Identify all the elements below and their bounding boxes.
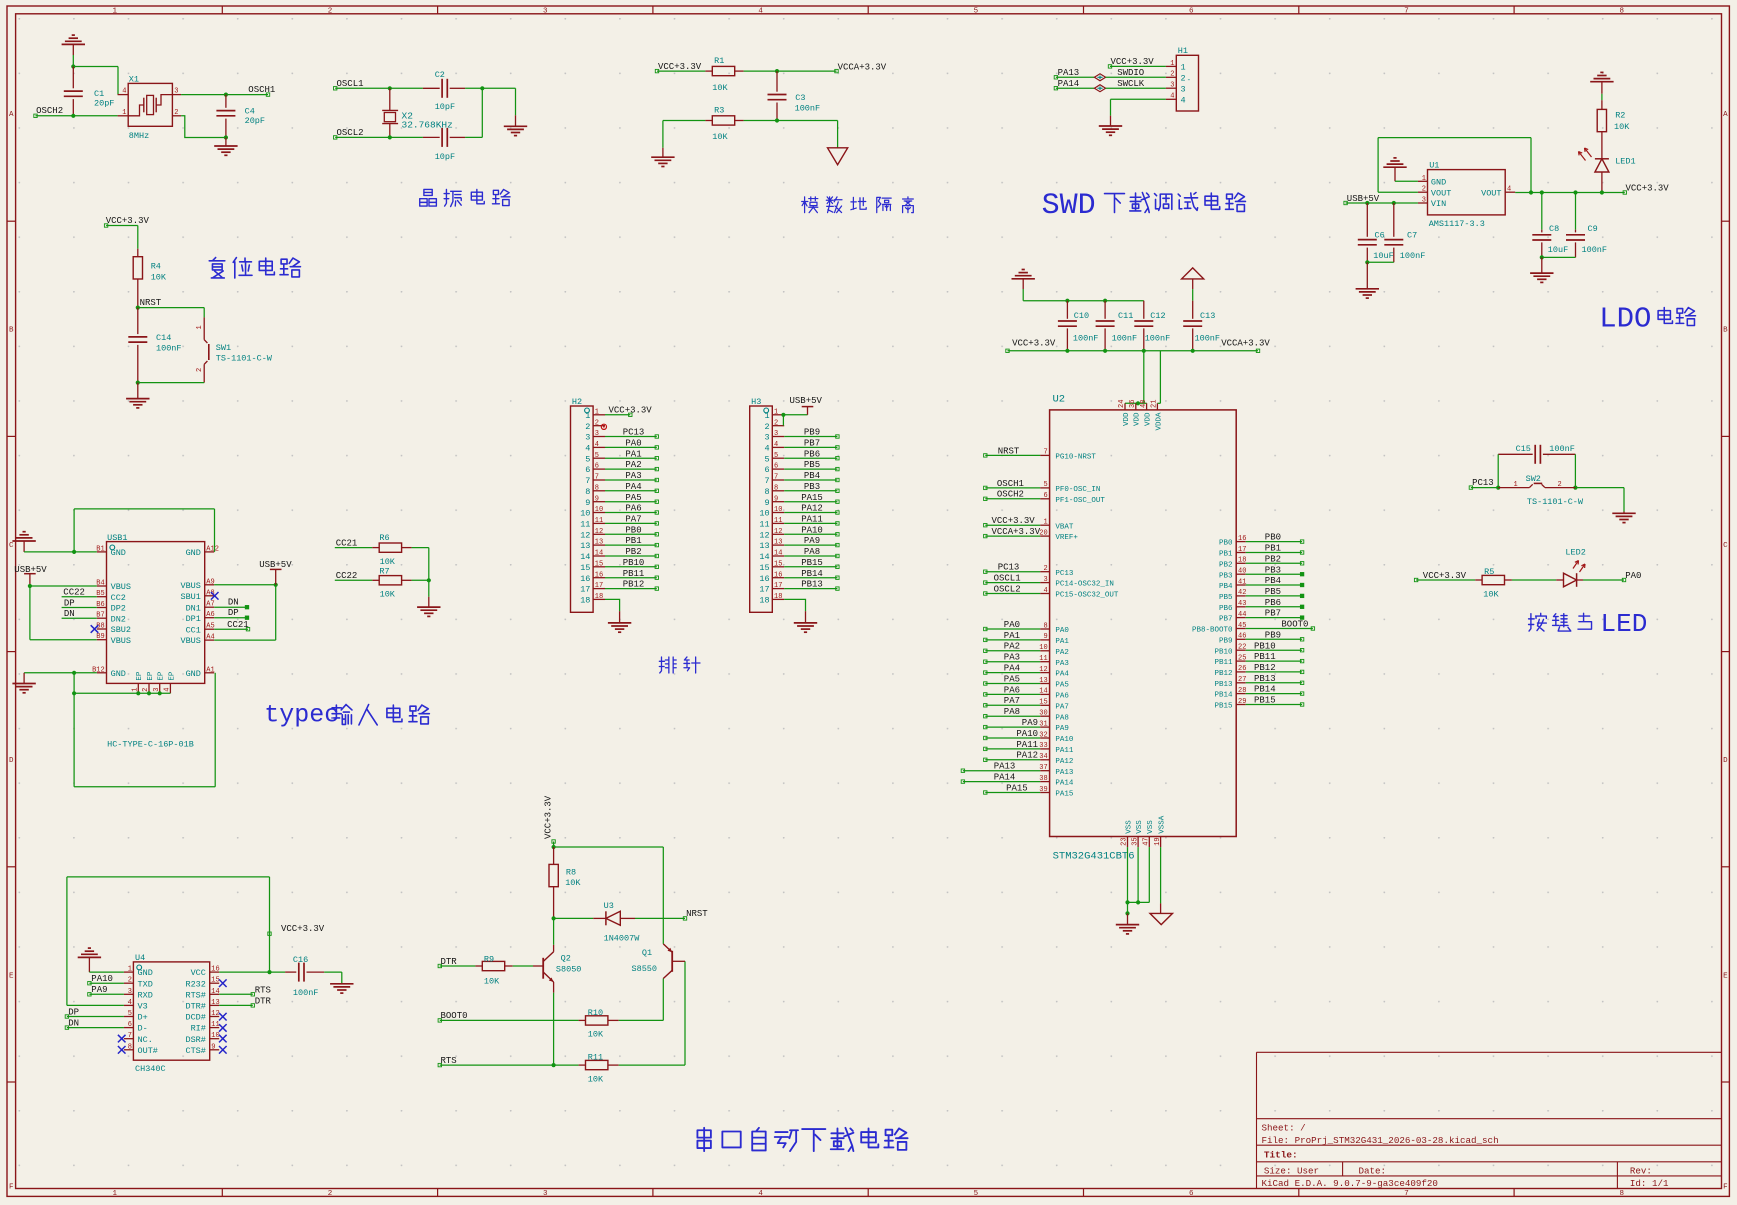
svg-text:7: 7	[764, 476, 769, 486]
svg-text:USB+5V: USB+5V	[790, 396, 823, 406]
svg-text:PB15: PB15	[801, 558, 823, 568]
svg-text:R11: R11	[588, 1053, 603, 1063]
svg-text:VCC+3.3V: VCC+3.3V	[281, 924, 325, 934]
svg-text:3: 3	[1170, 82, 1174, 90]
svg-text:PB10: PB10	[1254, 641, 1276, 651]
svg-text:F: F	[1723, 1184, 1728, 1192]
svg-text:C9: C9	[1588, 224, 1598, 234]
svg-text:PF1-OSC_OUT: PF1-OSC_OUT	[1055, 497, 1105, 505]
svg-text:R10: R10	[588, 1008, 603, 1018]
svg-text:10: 10	[580, 509, 590, 519]
svg-text:VSS: VSS	[1125, 820, 1133, 834]
svg-text:C14: C14	[156, 333, 171, 343]
svg-text:VCC+3.3V: VCC+3.3V	[658, 62, 702, 72]
svg-text:A1: A1	[206, 666, 214, 674]
svg-text:10: 10	[595, 506, 603, 514]
svg-text:RTS: RTS	[441, 1056, 457, 1066]
svg-text:PB10: PB10	[623, 558, 645, 568]
svg-text:16: 16	[580, 574, 590, 584]
svg-text:10K: 10K	[712, 83, 728, 93]
svg-text:VCCA+3.3V: VCCA+3.3V	[1221, 338, 1270, 348]
svg-text:14: 14	[759, 552, 769, 562]
svg-text:DN: DN	[64, 609, 75, 619]
svg-text:1: 1	[1514, 481, 1518, 489]
svg-text:14: 14	[595, 550, 603, 558]
svg-text:100nF: 100nF	[1145, 333, 1171, 343]
svg-text:C: C	[1723, 542, 1728, 550]
svg-text:R232: R232	[185, 979, 205, 989]
svg-text:2: 2	[196, 368, 204, 372]
svg-text:PA10: PA10	[801, 525, 823, 535]
svg-text:12: 12	[580, 530, 590, 540]
svg-text:SWCLK: SWCLK	[1117, 79, 1145, 89]
svg-text:31: 31	[1039, 720, 1047, 728]
svg-text:15: 15	[759, 563, 769, 573]
svg-text:10K: 10K	[380, 557, 396, 567]
svg-text:3: 3	[174, 88, 178, 96]
svg-text:DP: DP	[64, 598, 75, 608]
svg-text:20: 20	[1039, 529, 1047, 537]
svg-text:R1: R1	[714, 56, 724, 66]
svg-text:S8550: S8550	[632, 964, 658, 974]
svg-text:2: 2	[1043, 565, 1047, 573]
svg-text:PB3: PB3	[804, 482, 820, 492]
svg-text:43: 43	[1238, 600, 1246, 608]
svg-text:PB6: PB6	[804, 449, 820, 459]
svg-text:PA7: PA7	[625, 515, 641, 525]
svg-text:100nF: 100nF	[1582, 245, 1608, 255]
svg-text:10: 10	[211, 1032, 219, 1040]
svg-text:2: 2	[585, 422, 590, 432]
svg-text:10K: 10K	[1483, 590, 1499, 600]
svg-text:6: 6	[1189, 1190, 1194, 1198]
svg-text:28: 28	[1238, 687, 1246, 695]
svg-text:CTS#: CTS#	[185, 1046, 205, 1056]
svg-text:PA7: PA7	[1055, 703, 1069, 711]
svg-text:35: 35	[1131, 837, 1139, 845]
svg-text:13: 13	[211, 999, 219, 1007]
svg-text:C2: C2	[435, 70, 445, 80]
svg-text:23: 23	[1121, 837, 1129, 845]
svg-text:E: E	[1723, 972, 1728, 980]
svg-text:PB13: PB13	[801, 580, 823, 590]
svg-text:RTS#: RTS#	[185, 990, 205, 1000]
svg-text:C10: C10	[1074, 311, 1089, 321]
svg-text:DP: DP	[228, 608, 239, 618]
svg-text:4: 4	[122, 88, 126, 96]
svg-text:PB4: PB4	[804, 471, 820, 481]
svg-text:D+: D+	[138, 1013, 148, 1023]
svg-text:C6: C6	[1375, 230, 1385, 240]
svg-text:3: 3	[1181, 84, 1186, 94]
svg-text:8: 8	[128, 1043, 132, 1051]
svg-text:11: 11	[595, 517, 603, 525]
svg-text:1N4007W: 1N4007W	[604, 934, 641, 944]
svg-text:10pF: 10pF	[435, 152, 455, 162]
svg-text:PB2: PB2	[1219, 561, 1233, 569]
svg-text:100nF: 100nF	[1400, 251, 1426, 261]
svg-text:8: 8	[1620, 7, 1625, 15]
svg-text:3: 3	[774, 430, 778, 438]
svg-text:PA8: PA8	[1055, 714, 1069, 722]
svg-text:HC-TYPE-C-16P-01B: HC-TYPE-C-16P-01B	[107, 739, 194, 749]
svg-text:10uF: 10uF	[1373, 251, 1393, 261]
svg-text:LDO: LDO	[1599, 303, 1651, 336]
svg-text:X1: X1	[129, 74, 139, 84]
svg-text:22: 22	[1238, 644, 1246, 652]
svg-text:5: 5	[585, 454, 590, 464]
svg-text:PB11: PB11	[1254, 652, 1276, 662]
svg-text:VCC+3.3V: VCC+3.3V	[1012, 338, 1056, 348]
svg-text:4: 4	[774, 441, 778, 449]
svg-text:LED: LED	[1601, 609, 1648, 639]
svg-text:typec: typec	[264, 701, 339, 730]
svg-text:VCCA+3.3V: VCCA+3.3V	[838, 63, 887, 73]
svg-text:18: 18	[1238, 557, 1246, 565]
svg-text:OSCH1: OSCH1	[248, 85, 275, 95]
svg-text:RXD: RXD	[138, 990, 153, 1000]
svg-text:SWD: SWD	[1042, 189, 1096, 223]
svg-text:VBUS: VBUS	[111, 582, 131, 592]
svg-text:7: 7	[1404, 7, 1409, 15]
svg-text:4: 4	[764, 444, 769, 454]
svg-text:39: 39	[1039, 786, 1047, 794]
svg-text:2: 2	[595, 419, 599, 427]
svg-text:GND: GND	[186, 669, 201, 679]
svg-text:NRST: NRST	[140, 298, 162, 308]
svg-text:EP: EP	[158, 671, 166, 681]
svg-text:B6: B6	[96, 601, 104, 609]
svg-text:5: 5	[974, 1190, 979, 1198]
svg-text:1: 1	[112, 1190, 117, 1198]
svg-text:CC21: CC21	[227, 620, 249, 630]
svg-text:CH340C: CH340C	[135, 1064, 166, 1074]
svg-text:EP: EP	[168, 671, 176, 681]
svg-text:VDDA: VDDA	[1155, 412, 1163, 431]
svg-text:PA7: PA7	[1004, 696, 1020, 706]
svg-text:8: 8	[595, 484, 599, 492]
svg-text:PB1: PB1	[1265, 544, 1281, 554]
svg-text:VCC+3.3V: VCC+3.3V	[1626, 183, 1670, 193]
svg-text:OSCH2: OSCH2	[36, 106, 63, 116]
svg-text:PB5: PB5	[804, 460, 820, 470]
svg-text:GND: GND	[186, 548, 201, 558]
svg-text:18: 18	[595, 593, 603, 601]
svg-text:3: 3	[764, 433, 769, 443]
svg-text:TS-1101-C-W: TS-1101-C-W	[216, 354, 273, 364]
svg-text:16: 16	[595, 571, 603, 579]
svg-text:PA1: PA1	[1055, 638, 1069, 646]
svg-text:PA0: PA0	[1625, 571, 1641, 581]
svg-text:3: 3	[543, 7, 548, 15]
svg-text:10uF: 10uF	[1548, 245, 1568, 255]
svg-text:OUT#: OUT#	[138, 1046, 158, 1056]
svg-text:TS-1101-C-W: TS-1101-C-W	[1527, 497, 1584, 507]
svg-text:PB13: PB13	[1214, 681, 1233, 689]
svg-text:Q1: Q1	[642, 948, 652, 958]
svg-text:PB4: PB4	[1219, 583, 1233, 591]
svg-text:37: 37	[1039, 764, 1047, 772]
svg-text:1: 1	[112, 7, 117, 15]
svg-text:9: 9	[211, 1043, 215, 1051]
svg-text:PB0: PB0	[625, 525, 641, 535]
svg-text:OSCL2: OSCL2	[337, 128, 364, 138]
svg-text:Size: User: Size: User	[1264, 1165, 1319, 1176]
svg-text:VREF+: VREF+	[1055, 534, 1078, 542]
svg-text:C8: C8	[1549, 224, 1559, 234]
svg-text:PA4: PA4	[625, 482, 641, 492]
svg-text:USB1: USB1	[107, 533, 127, 543]
svg-text:VCC+3.3V: VCC+3.3V	[609, 405, 653, 415]
svg-text:PA11: PA11	[1016, 740, 1038, 750]
svg-text:4: 4	[1170, 93, 1174, 101]
svg-text:A6: A6	[206, 611, 214, 619]
svg-text:PB14: PB14	[801, 569, 823, 579]
svg-text:10K: 10K	[1614, 122, 1630, 132]
svg-text:C7: C7	[1407, 230, 1417, 240]
svg-text:GND: GND	[111, 669, 126, 679]
svg-text:3: 3	[595, 430, 599, 438]
svg-text:PA6: PA6	[1055, 693, 1069, 701]
svg-text:DTR#: DTR#	[185, 1002, 205, 1012]
svg-text:U4: U4	[135, 953, 145, 963]
svg-text:PA9: PA9	[1022, 718, 1038, 728]
svg-text:10pF: 10pF	[435, 102, 455, 112]
svg-text:PC13: PC13	[1055, 570, 1074, 578]
svg-text:100nF: 100nF	[795, 104, 821, 114]
svg-text:2: 2	[328, 1190, 333, 1198]
svg-text:PB1: PB1	[625, 536, 641, 546]
svg-text:12: 12	[774, 528, 782, 536]
svg-text:8: 8	[1043, 622, 1047, 630]
svg-text:PB14: PB14	[1214, 692, 1233, 700]
svg-text:PB12: PB12	[1254, 663, 1276, 673]
svg-text:5: 5	[595, 452, 599, 460]
svg-text:PA8: PA8	[1004, 707, 1020, 717]
svg-text:SW2: SW2	[1526, 474, 1541, 484]
svg-text:12: 12	[759, 530, 769, 540]
svg-text:26: 26	[1238, 665, 1246, 673]
svg-text:OSCH2: OSCH2	[997, 490, 1024, 500]
svg-text:10: 10	[774, 506, 782, 514]
svg-text:USB+5V: USB+5V	[1347, 194, 1380, 204]
svg-text:PB10: PB10	[1214, 648, 1233, 656]
svg-text:NRST: NRST	[998, 446, 1020, 456]
svg-text:E: E	[9, 972, 14, 980]
svg-text:LED2: LED2	[1565, 547, 1585, 557]
svg-text:3: 3	[153, 688, 161, 692]
svg-text:PB2: PB2	[1265, 554, 1281, 564]
svg-text:15: 15	[595, 560, 603, 568]
svg-text:PA0: PA0	[1004, 620, 1020, 630]
svg-text:5: 5	[764, 454, 769, 464]
svg-text:PA15: PA15	[1055, 791, 1074, 799]
svg-text:A: A	[9, 111, 14, 119]
svg-text:4: 4	[1181, 95, 1186, 105]
svg-text:6: 6	[764, 465, 769, 475]
svg-text:S8050: S8050	[556, 965, 582, 975]
svg-text:H1: H1	[1178, 46, 1188, 56]
svg-text:11: 11	[774, 517, 782, 525]
svg-text:2: 2	[774, 419, 778, 427]
svg-text:PC15-OSC32_OUT: PC15-OSC32_OUT	[1055, 592, 1119, 600]
svg-text:B9: B9	[96, 633, 104, 641]
svg-text:C4: C4	[245, 107, 255, 117]
svg-text:VSS: VSS	[1147, 820, 1155, 834]
svg-text:100nF: 100nF	[1073, 333, 1099, 343]
svg-text:VCC+3.3V: VCC+3.3V	[1111, 57, 1155, 67]
svg-text:PB4: PB4	[1265, 576, 1281, 586]
svg-text:R8: R8	[566, 868, 576, 878]
svg-text:18: 18	[759, 596, 769, 606]
svg-text:DCD#: DCD#	[185, 1013, 205, 1023]
svg-text:PB7: PB7	[804, 439, 820, 449]
svg-text:5: 5	[974, 7, 979, 15]
svg-text:1: 1	[585, 411, 590, 421]
svg-text:13: 13	[1039, 677, 1047, 685]
svg-text:36: 36	[1129, 400, 1137, 408]
svg-text:10K: 10K	[588, 1074, 604, 1084]
svg-text:PB0: PB0	[1265, 533, 1281, 543]
svg-text:VSSA: VSSA	[1159, 815, 1167, 834]
svg-text:17: 17	[759, 585, 769, 595]
svg-text:B4: B4	[96, 580, 104, 588]
svg-text:DP1: DP1	[186, 614, 201, 624]
svg-text:DTR: DTR	[255, 997, 272, 1007]
svg-text:PA0: PA0	[625, 439, 641, 449]
svg-text:H3: H3	[751, 397, 761, 407]
svg-text:PA0: PA0	[1055, 627, 1069, 635]
svg-text:R4: R4	[151, 262, 161, 272]
svg-text:PB2: PB2	[625, 547, 641, 557]
svg-text:1: 1	[122, 109, 126, 117]
svg-text:100nF: 100nF	[1549, 444, 1575, 454]
svg-text:7: 7	[1043, 449, 1047, 457]
svg-text:OSCL2: OSCL2	[994, 584, 1021, 594]
svg-text:SBU1: SBU1	[180, 592, 200, 602]
svg-text:17: 17	[580, 585, 590, 595]
svg-text:1: 1	[764, 411, 769, 421]
svg-text:1: 1	[128, 966, 132, 974]
svg-text:18: 18	[580, 596, 590, 606]
svg-text:17: 17	[774, 582, 782, 590]
svg-text:6: 6	[1043, 492, 1047, 500]
svg-text:15: 15	[774, 560, 782, 568]
svg-text:12: 12	[211, 1010, 219, 1018]
svg-text:SWDIO: SWDIO	[1117, 68, 1144, 78]
svg-text:2: 2	[142, 688, 150, 692]
svg-text:VSS: VSS	[1136, 820, 1144, 834]
svg-text:2: 2	[1558, 481, 1562, 489]
svg-text:2: 2	[1181, 73, 1186, 83]
svg-text:NRST: NRST	[686, 909, 708, 919]
svg-text:11: 11	[211, 1021, 219, 1029]
svg-text:12: 12	[1039, 666, 1047, 674]
svg-text:VDD: VDD	[1145, 412, 1153, 426]
svg-text:PC13: PC13	[623, 428, 645, 438]
svg-text:16: 16	[759, 574, 769, 584]
svg-text:CC2: CC2	[111, 593, 126, 603]
svg-text:PA3: PA3	[1004, 653, 1020, 663]
svg-text:44: 44	[1238, 611, 1246, 619]
svg-text:PA6: PA6	[625, 504, 641, 514]
svg-text:46: 46	[1238, 633, 1246, 641]
svg-text:VOUT: VOUT	[1431, 188, 1451, 198]
svg-text:PB13: PB13	[1254, 674, 1276, 684]
svg-text:D: D	[1723, 757, 1728, 765]
svg-text:17: 17	[1238, 546, 1246, 554]
svg-text:DSR#: DSR#	[185, 1035, 205, 1045]
svg-text:SBU2: SBU2	[111, 625, 131, 635]
svg-text:10: 10	[759, 509, 769, 519]
svg-text:TXD: TXD	[138, 979, 153, 989]
svg-text:11: 11	[759, 520, 769, 530]
svg-text:C: C	[9, 542, 14, 550]
svg-text:PB6: PB6	[1219, 605, 1233, 613]
svg-text:NC.: NC.	[138, 1035, 153, 1045]
svg-text:16: 16	[774, 571, 782, 579]
svg-text:PG10-NRST: PG10-NRST	[1055, 454, 1096, 462]
svg-text:PB8-BOOT0: PB8-BOOT0	[1192, 627, 1233, 635]
svg-text:100nF: 100nF	[293, 988, 319, 998]
svg-text:V3: V3	[138, 1002, 148, 1012]
svg-text:30: 30	[1039, 710, 1047, 718]
svg-text:100nF: 100nF	[1112, 333, 1138, 343]
svg-text:U1: U1	[1429, 160, 1439, 170]
svg-text:BOOT0: BOOT0	[441, 1011, 468, 1021]
svg-text:2: 2	[174, 109, 178, 117]
svg-text:C12: C12	[1150, 311, 1165, 321]
svg-text:1: 1	[1170, 60, 1174, 68]
svg-text:2: 2	[764, 422, 769, 432]
svg-text:29: 29	[1238, 698, 1246, 706]
svg-text:VCC+3.3V: VCC+3.3V	[992, 516, 1036, 526]
svg-text:D: D	[9, 757, 14, 765]
svg-text:PB3: PB3	[1265, 565, 1281, 575]
svg-text:47: 47	[1143, 837, 1151, 845]
svg-text:PA5: PA5	[625, 493, 641, 503]
svg-text:Date:: Date:	[1359, 1165, 1387, 1176]
svg-text:6: 6	[585, 465, 590, 475]
svg-text:PB3: PB3	[1219, 572, 1233, 580]
svg-text:15: 15	[211, 977, 219, 985]
svg-text:15: 15	[1039, 699, 1047, 707]
svg-text:C3: C3	[795, 93, 805, 103]
svg-text:VIN: VIN	[1431, 199, 1446, 209]
svg-text:PA14: PA14	[994, 773, 1016, 783]
svg-text:VCC: VCC	[191, 968, 206, 978]
svg-text:7: 7	[1404, 1190, 1409, 1198]
svg-text:2: 2	[128, 977, 132, 985]
svg-text:13: 13	[759, 541, 769, 551]
svg-text:11: 11	[580, 520, 590, 530]
svg-text:RI#: RI#	[191, 1024, 206, 1034]
svg-text:PA6: PA6	[1004, 685, 1020, 695]
svg-text:PB6: PB6	[1265, 598, 1281, 608]
svg-text:D-: D-	[138, 1024, 148, 1034]
svg-text:4: 4	[1507, 186, 1511, 194]
svg-text:9: 9	[585, 498, 590, 508]
svg-text:18: 18	[774, 593, 782, 601]
svg-text:2: 2	[1422, 186, 1426, 194]
svg-text:DP2: DP2	[111, 604, 126, 614]
svg-text:VBUS: VBUS	[180, 581, 200, 591]
svg-text:6: 6	[1189, 7, 1194, 15]
svg-text:OSCL1: OSCL1	[994, 574, 1021, 584]
svg-text:R7: R7	[379, 567, 389, 577]
svg-text:8: 8	[774, 484, 778, 492]
svg-text:U2: U2	[1053, 394, 1066, 406]
